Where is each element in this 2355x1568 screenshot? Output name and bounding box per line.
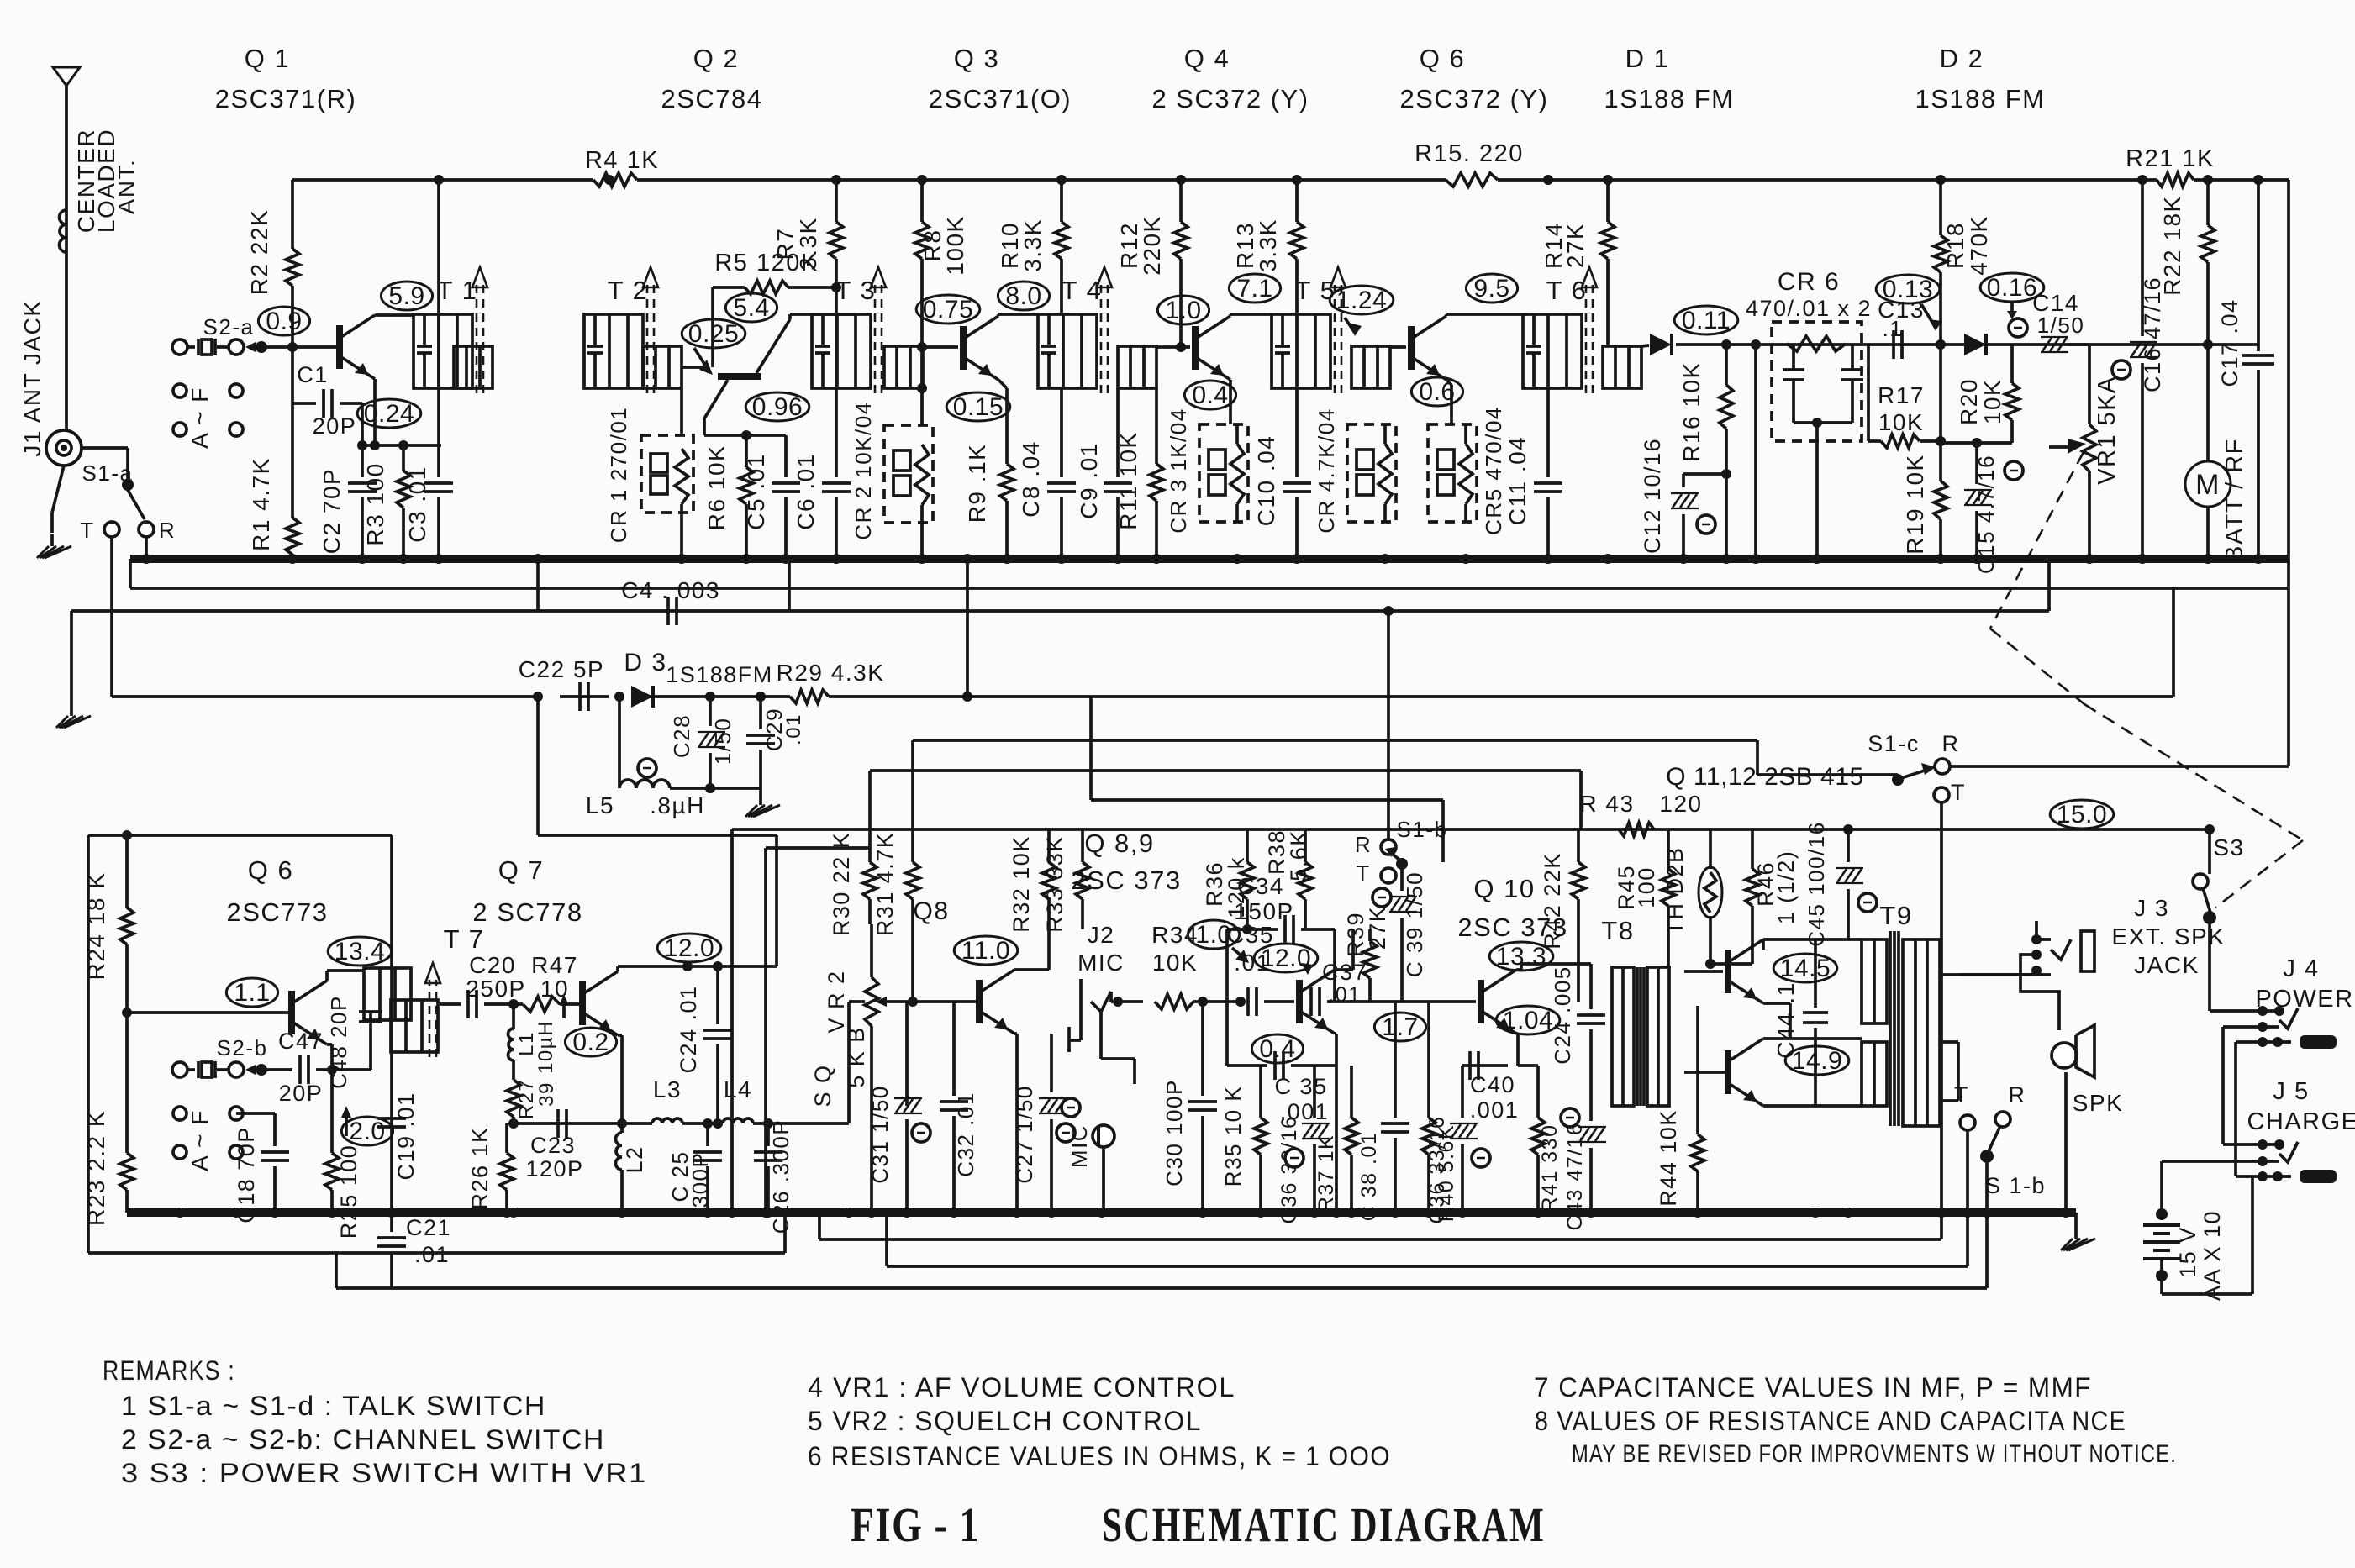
transformer T6 bbox=[1523, 267, 1641, 393]
wire Q8 emitter bbox=[1014, 1034, 1017, 1213]
capacitor C24b bbox=[1550, 964, 1605, 1106]
wire Q10 base bbox=[1370, 1000, 1476, 1003]
svg-text:V R 2: V R 2 bbox=[824, 970, 849, 1033]
switch S1-b lower bbox=[1954, 1082, 2046, 1213]
capacitor C21 bbox=[377, 1213, 451, 1288]
transistor label Q1 bbox=[215, 44, 357, 113]
wire to VR1 bbox=[2068, 345, 2089, 424]
svg-text:L2: L2 bbox=[622, 1145, 647, 1173]
svg-text:C19 .01: C19 .01 bbox=[393, 1092, 419, 1180]
svg-text:R25 100: R25 100 bbox=[336, 1144, 361, 1239]
wire mid A bbox=[913, 740, 1757, 862]
svg-text:J 4: J 4 bbox=[2283, 955, 2319, 982]
svg-text:T: T bbox=[1951, 780, 1966, 805]
meter oval 2.0 bbox=[341, 1106, 393, 1145]
svg-text:.01: .01 bbox=[782, 713, 805, 745]
svg-text:20P: 20P bbox=[279, 1081, 324, 1106]
svg-text:220K: 220K bbox=[1139, 215, 1165, 275]
svg-text:C 35: C 35 bbox=[1274, 1074, 1327, 1099]
svg-text:C40: C40 bbox=[1470, 1072, 1515, 1097]
resistor R34 bbox=[1151, 922, 1241, 1009]
wire osc feedback bbox=[962, 559, 972, 702]
bus junction bbox=[2084, 554, 2094, 564]
capacitor C12 bbox=[1640, 438, 1726, 559]
bus junction bbox=[781, 554, 791, 564]
svg-text:3.3K: 3.3K bbox=[795, 217, 821, 271]
bottom bus junction bbox=[902, 1208, 912, 1218]
transistor Q11 bbox=[1684, 939, 1763, 1003]
transistor label Q3 bbox=[929, 44, 1072, 113]
svg-text:5 VR2 : SQUELCH CONTROL: 5 VR2 : SQUELCH CONTROL bbox=[808, 1406, 1202, 1436]
label center loaded ant bbox=[73, 129, 140, 233]
wire Q6rf base bbox=[1345, 318, 1406, 347]
svg-text:2SC371(O): 2SC371(O) bbox=[929, 84, 1072, 113]
wire Q12 out bbox=[1763, 1104, 1862, 1108]
ceramic filter CR6 bbox=[1746, 268, 1872, 559]
audio supply rail bbox=[732, 829, 2210, 1213]
resistor R16 bbox=[1678, 345, 1733, 559]
capacitor C36 bbox=[1278, 1066, 1330, 1223]
wire S3 down bbox=[2208, 924, 2211, 1011]
meter oval 11.0 bbox=[954, 936, 1018, 965]
inductor L5 bbox=[586, 692, 761, 818]
wire T column bbox=[110, 537, 113, 697]
svg-text:.01: .01 bbox=[414, 1242, 450, 1267]
bus junction bbox=[1721, 554, 1731, 564]
inductor L2 bbox=[616, 1123, 647, 1213]
capacitor C27 bbox=[1012, 1034, 1075, 1213]
resistor R38 bbox=[1264, 829, 1312, 929]
meter oval 5.9 bbox=[381, 282, 432, 310]
meter oval 9.5 bbox=[1466, 274, 1517, 303]
bus junction bbox=[962, 554, 972, 564]
label BATT/RF bbox=[2221, 438, 2248, 562]
svg-text:120: 120 bbox=[1659, 791, 1702, 817]
svg-text:C48 20P: C48 20P bbox=[326, 995, 351, 1089]
svg-text:20P: 20P bbox=[313, 413, 357, 439]
wire below3 bbox=[336, 1213, 1987, 1288]
meter oval 15.0 bbox=[2050, 800, 2114, 829]
svg-text:R23 2.2 K: R23 2.2 K bbox=[83, 1110, 109, 1226]
svg-text:C23: C23 bbox=[530, 1133, 576, 1158]
remarks line3 bbox=[121, 1458, 647, 1488]
wire Q4 emitter bbox=[1229, 380, 1232, 424]
resistor R31 bbox=[872, 832, 919, 1007]
wire Q7 collector bbox=[618, 961, 777, 971]
diode D1 bbox=[1650, 334, 1672, 355]
bottom bus junction bbox=[1962, 1208, 1973, 1218]
svg-text:.8µH: .8µH bbox=[650, 792, 705, 818]
bottom bus junction bbox=[1586, 1208, 1596, 1218]
svg-text:L4: L4 bbox=[724, 1076, 752, 1102]
svg-text:SCHEMATIC DIAGRAM: SCHEMATIC DIAGRAM bbox=[1102, 1497, 1546, 1552]
svg-text:CR 4.7K/04: CR 4.7K/04 bbox=[1314, 408, 1339, 533]
rail junction bbox=[1936, 175, 1946, 185]
resistor R11 bbox=[1115, 388, 1163, 559]
meter oval 0.25 bbox=[682, 319, 745, 348]
svg-text:27K: 27K bbox=[1365, 906, 1390, 950]
wire Q10 emitter bbox=[1516, 1034, 1518, 1066]
capacitor C25 bbox=[667, 1118, 722, 1213]
bottom bus junction bbox=[761, 1208, 771, 1218]
wire D3 row bbox=[112, 588, 2173, 697]
bus junction bbox=[1113, 554, 1123, 564]
bottom bus junction bbox=[1693, 1208, 1703, 1218]
transistor label Q2 bbox=[661, 44, 762, 113]
svg-text:M: M bbox=[2195, 469, 2221, 501]
wire vr2 input bbox=[849, 1002, 865, 1123]
svg-text:D 3: D 3 bbox=[624, 649, 666, 676]
svg-text:9.5: 9.5 bbox=[1473, 275, 1509, 303]
svg-text:15.0: 15.0 bbox=[2057, 801, 2107, 829]
capacitor C1 bbox=[292, 347, 362, 445]
svg-text:R2 22K: R2 22K bbox=[246, 209, 272, 295]
svg-text:C24 .01: C24 .01 bbox=[676, 985, 701, 1073]
svg-text:C1: C1 bbox=[297, 362, 329, 387]
wire Q3 emitter bbox=[998, 380, 1007, 424]
meter oval 8.0 bbox=[998, 282, 1049, 310]
svg-text:C20: C20 bbox=[469, 952, 516, 978]
diode D3 bbox=[624, 649, 772, 708]
svg-text:S1-b: S1-b bbox=[1397, 817, 1448, 842]
meter oval 13.3 bbox=[1489, 942, 1553, 971]
transistor Q1 bbox=[340, 315, 375, 379]
bus junction bbox=[1751, 554, 1761, 564]
capacitor C23 bbox=[525, 1109, 583, 1181]
wire Q6rf collector bbox=[1446, 314, 1527, 316]
svg-text:Q 3: Q 3 bbox=[954, 44, 999, 73]
svg-text:0.15: 0.15 bbox=[953, 393, 1004, 421]
bus junction bbox=[287, 554, 298, 564]
svg-text:SPK: SPK bbox=[2073, 1090, 2124, 1116]
svg-text:C31 1/50: C31 1/50 bbox=[867, 1085, 893, 1184]
svg-text:L5: L5 bbox=[586, 792, 614, 818]
bus B- bottom bbox=[127, 1208, 2076, 1217]
resistor R40 bbox=[1422, 1002, 1458, 1222]
svg-text:MAY BE REVISED FOR IMPROVM: MAY BE REVISED FOR IMPROVMENTS W ITHOUT … bbox=[1572, 1440, 2177, 1468]
svg-text:J2: J2 bbox=[1088, 922, 1115, 948]
svg-text:5.9: 5.9 bbox=[388, 282, 424, 310]
rail junction bbox=[1603, 175, 1613, 185]
svg-text:C12 10/16: C12 10/16 bbox=[1640, 438, 1665, 554]
transistor Q6rf bbox=[1411, 316, 1446, 380]
svg-text:R47: R47 bbox=[531, 952, 578, 978]
resistor R8 bbox=[915, 180, 968, 425]
capacitor C36b bbox=[1425, 1066, 1490, 1223]
ground ant bbox=[37, 466, 71, 558]
switch S1-a bbox=[80, 448, 176, 543]
svg-text:R9 .1K: R9 .1K bbox=[964, 444, 990, 524]
rail junction bbox=[434, 175, 444, 185]
svg-text:A ~ F: A ~ F bbox=[187, 1109, 213, 1171]
node Q1 base bbox=[287, 342, 298, 352]
resistor R17 bbox=[1868, 345, 1946, 448]
transformer T5 bbox=[1272, 267, 1390, 393]
bus junction bbox=[917, 554, 927, 564]
svg-text:1S188 FM: 1S188 FM bbox=[1915, 84, 2045, 113]
svg-text:.1: .1 bbox=[1883, 316, 1904, 341]
svg-text:R31 4.7K: R31 4.7K bbox=[872, 832, 898, 937]
svg-text:C3 .01: C3 .01 bbox=[404, 466, 430, 543]
remarks line9 bbox=[1572, 1440, 2177, 1468]
svg-text:7 CAPACITANCE VALUES IN M: 7 CAPACITANCE VALUES IN MF, P = MMF bbox=[1534, 1372, 2092, 1402]
svg-text:T 4: T 4 bbox=[1062, 276, 1103, 305]
svg-text:CR 3 1K/04: CR 3 1K/04 bbox=[1166, 408, 1191, 533]
label A~F osc bbox=[173, 1107, 243, 1171]
switch S1-c bbox=[1868, 731, 1966, 805]
potentiometer VR1 bbox=[2049, 376, 2121, 559]
wire drv rail bbox=[1705, 959, 1752, 969]
svg-text:R1 4.7K: R1 4.7K bbox=[248, 457, 274, 551]
wire agc line bbox=[71, 559, 2049, 704]
wire S1c R bbox=[1950, 765, 2289, 768]
svg-text:R42 22K: R42 22K bbox=[1540, 852, 1565, 950]
svg-text:1 (1/2): 1 (1/2) bbox=[1773, 850, 1799, 925]
wire Q6rf emitter bbox=[1446, 380, 1451, 424]
meter oval 1.1 bbox=[226, 978, 277, 1007]
capacitor C39 bbox=[1372, 864, 1427, 1002]
svg-text:R29 4.3K: R29 4.3K bbox=[777, 660, 885, 686]
svg-text:120P: 120P bbox=[525, 1156, 583, 1181]
switch S2-b bbox=[172, 1035, 277, 1078]
transistor Q9 bbox=[1299, 970, 1335, 1034]
inductor L3 bbox=[622, 1076, 682, 1123]
svg-text:100K: 100K bbox=[942, 215, 968, 275]
microphone MIC bbox=[1062, 1098, 1114, 1213]
bottom bus junction bbox=[1198, 1208, 1208, 1218]
svg-text:1.24: 1.24 bbox=[1336, 287, 1387, 314]
resistor R23 bbox=[83, 1013, 134, 1226]
bottom bus junction bbox=[1346, 1208, 1357, 1218]
svg-text:120 k: 120 k bbox=[1224, 856, 1249, 918]
bottom bus junction bbox=[387, 1208, 397, 1218]
transformer T3 bbox=[812, 267, 923, 393]
resistor R29 bbox=[777, 660, 885, 703]
resistor R3 bbox=[362, 440, 410, 559]
resistor R1 bbox=[248, 403, 299, 559]
meter oval 1.04 bbox=[1496, 1006, 1560, 1034]
svg-text:S 1-b: S 1-b bbox=[1985, 1173, 2046, 1198]
bottom bus junction bbox=[1012, 1208, 1022, 1218]
svg-text:14.9: 14.9 bbox=[1792, 1047, 1842, 1075]
resistor R6 bbox=[703, 435, 753, 559]
svg-text:REMARKS :: REMARKS : bbox=[103, 1355, 235, 1386]
svg-text:470/.01 x 2: 470/.01 x 2 bbox=[1746, 296, 1872, 321]
resistor R42 bbox=[1540, 829, 1585, 1002]
svg-text:S2-b: S2-b bbox=[217, 1035, 268, 1060]
bottom bus junction bbox=[1457, 1208, 1467, 1218]
bus B- top section bbox=[130, 555, 2289, 563]
resistor R25 bbox=[325, 1070, 361, 1239]
svg-text:VR1 5KA: VR1 5KA bbox=[2094, 376, 2121, 485]
ground C29 bbox=[745, 788, 780, 817]
resistor R21 bbox=[2126, 145, 2215, 187]
svg-text:T 1: T 1 bbox=[437, 276, 478, 305]
meter oval 12.0 bbox=[657, 934, 721, 962]
resistor R24 bbox=[83, 835, 134, 1018]
bottom bus junction bbox=[617, 1208, 627, 1218]
capacitor C30 bbox=[1162, 997, 1217, 1213]
wire below2 bbox=[887, 1213, 1968, 1266]
svg-text:8 VALUES OF RESISTANCE AN: 8 VALUES OF RESISTANCE AND CAPACITA NCE bbox=[1535, 1406, 2126, 1436]
svg-text:470K: 470K bbox=[1966, 215, 1992, 275]
svg-text:S3: S3 bbox=[2213, 834, 2244, 860]
wire Q2 emitter bias bbox=[704, 430, 786, 440]
meter oval 1.24 bbox=[1330, 286, 1394, 314]
resistor R10 bbox=[997, 180, 1068, 314]
figure caption bbox=[851, 1497, 1546, 1552]
svg-text:D 2: D 2 bbox=[1940, 44, 1984, 73]
wire below1 bbox=[819, 1213, 1941, 1239]
svg-text:C10 .04: C10 .04 bbox=[1253, 435, 1279, 527]
transformer T9 bbox=[1862, 901, 1940, 1126]
svg-text:7.1: 7.1 bbox=[1236, 275, 1272, 303]
capacitor C34 bbox=[1227, 873, 1335, 1002]
capacitor C31 bbox=[867, 1002, 930, 1213]
wire det drop bbox=[1754, 345, 1757, 559]
svg-text:BATT / RF: BATT / RF bbox=[2221, 438, 2248, 562]
resistor R36 bbox=[1202, 829, 1254, 934]
svg-text:2SC784: 2SC784 bbox=[661, 84, 762, 113]
bus junction bbox=[1380, 554, 1390, 564]
svg-text:R41 330: R41 330 bbox=[1538, 1123, 1562, 1212]
capacitor C15 bbox=[1964, 438, 2023, 574]
svg-text:C 38 .01: C 38 .01 bbox=[1357, 1132, 1381, 1222]
meter oval 14.5 bbox=[1773, 954, 1837, 982]
svg-text:0.75: 0.75 bbox=[923, 296, 973, 324]
svg-text:J 3: J 3 bbox=[2134, 895, 2169, 921]
meter oval 0.75 bbox=[916, 295, 980, 324]
transistor Q6 osc bbox=[292, 981, 327, 1044]
wire Q4 base bbox=[1156, 345, 1190, 349]
svg-text:R37 1K: R37 1K bbox=[1314, 1134, 1338, 1212]
bottom bus junction bbox=[1573, 1208, 1583, 1218]
rail junction bbox=[2203, 175, 2213, 185]
svg-text:1/50: 1/50 bbox=[2037, 313, 2085, 338]
bus junction bbox=[1543, 554, 1553, 564]
svg-text:S2-a: S2-a bbox=[203, 314, 255, 339]
capacitor C22 bbox=[519, 656, 604, 711]
transformer T1 bbox=[414, 267, 493, 393]
svg-text:8.0: 8.0 bbox=[1005, 282, 1041, 310]
svg-text:0.96: 0.96 bbox=[752, 393, 803, 421]
svg-text:2SC371(R): 2SC371(R) bbox=[215, 84, 357, 113]
meter oval 1.7 bbox=[1374, 1013, 1425, 1041]
bus junction bbox=[2203, 554, 2213, 564]
ground SPK bbox=[2061, 1213, 2095, 1250]
antenna loading coil bbox=[60, 210, 67, 252]
svg-text:T 6: T 6 bbox=[1546, 276, 1588, 305]
capacitor C28 bbox=[669, 692, 735, 793]
bottom bus junction bbox=[1046, 1208, 1056, 1218]
svg-text:0.2: 0.2 bbox=[572, 1029, 609, 1056]
capacitor C48 bbox=[326, 995, 382, 1089]
meter oval 0.6 bbox=[1411, 377, 1462, 406]
inductor L4 bbox=[682, 1076, 849, 1123]
label Q7 osc bbox=[472, 855, 582, 927]
node det1 bbox=[1721, 339, 1761, 350]
svg-text:C2 70P: C2 70P bbox=[319, 468, 345, 554]
transistor label Q4 bbox=[1151, 44, 1309, 113]
svg-text:0.4: 0.4 bbox=[1192, 381, 1228, 409]
speaker SPK bbox=[2052, 1012, 2123, 1213]
svg-text:1.1: 1.1 bbox=[234, 979, 270, 1007]
resistor R33 bbox=[1042, 829, 1089, 933]
svg-text:0.16: 0.16 bbox=[1987, 274, 2037, 302]
capacitor C16 bbox=[2112, 180, 2165, 559]
svg-text:C27 1/50: C27 1/50 bbox=[1012, 1085, 1037, 1184]
resistor R46 bbox=[1746, 829, 1799, 964]
svg-text:R20: R20 bbox=[1956, 378, 1982, 425]
mech dashed link bbox=[1990, 452, 2303, 908]
bus junction bbox=[1002, 554, 1012, 564]
meter oval 0.4b bbox=[1251, 1034, 1303, 1063]
transistor Q12 bbox=[1684, 1039, 1763, 1106]
svg-text:R: R bbox=[2009, 1082, 2026, 1108]
svg-text:1.7: 1.7 bbox=[1382, 1013, 1418, 1041]
rail junction bbox=[1543, 175, 1553, 185]
bus junction bbox=[677, 554, 687, 564]
svg-text:5.4: 5.4 bbox=[733, 294, 769, 322]
wire Q6 collector bbox=[327, 971, 364, 981]
capacitor C35h bbox=[1227, 922, 1294, 1016]
bottom bus junction bbox=[1533, 1208, 1543, 1218]
svg-text:R4 1K: R4 1K bbox=[585, 147, 659, 174]
svg-text:0.24: 0.24 bbox=[364, 400, 414, 428]
bottom bus junction bbox=[1097, 1208, 1107, 1218]
remarks line2 bbox=[121, 1424, 605, 1455]
capacitor C43 bbox=[1561, 1106, 1606, 1230]
wire C22 tap bbox=[538, 697, 777, 966]
remarks line1 bbox=[121, 1391, 546, 1421]
meter oval 0.2 bbox=[565, 1028, 616, 1056]
wire Q11 out bbox=[1763, 939, 1862, 1039]
wire C23 row bbox=[508, 1118, 627, 1129]
capacitor C8 bbox=[1018, 388, 1076, 559]
svg-text:0.4: 0.4 bbox=[1259, 1035, 1295, 1063]
jack J2 MIC bbox=[1069, 922, 1143, 1084]
rail junction bbox=[1176, 175, 1186, 185]
svg-text:R32 10K: R32 10K bbox=[1009, 835, 1034, 933]
bottom bus junction bbox=[844, 1208, 854, 1218]
svg-text:T 3: T 3 bbox=[835, 276, 877, 305]
wire mid B bbox=[870, 771, 1581, 862]
wire S1c T drop bbox=[1940, 802, 1943, 1213]
switch S3 bbox=[2193, 824, 2245, 924]
capacitor C4 bbox=[538, 559, 789, 625]
wire R column bbox=[145, 537, 148, 559]
svg-text:10K: 10K bbox=[1152, 950, 1198, 976]
wire S1c feed bbox=[1757, 740, 1903, 785]
bottom bus junction bbox=[1936, 1208, 1947, 1218]
svg-text:R3 100: R3 100 bbox=[362, 462, 388, 545]
svg-text:6 RESISTANCE VALUES IN OH: 6 RESISTANCE VALUES IN OHMS, K = 1 OOO bbox=[808, 1441, 1391, 1471]
svg-text:0.9: 0.9 bbox=[266, 308, 302, 335]
capacitor C17 bbox=[2217, 180, 2274, 559]
svg-text:12.0: 12.0 bbox=[664, 934, 714, 962]
meter oval 5.4 bbox=[725, 293, 777, 322]
svg-text:10K: 10K bbox=[1979, 379, 2005, 424]
bus junction bbox=[1678, 554, 1689, 564]
svg-text:T8: T8 bbox=[1601, 916, 1634, 945]
bus junction bbox=[1936, 554, 1946, 564]
wire J4J5 links bbox=[2223, 1027, 2236, 1176]
bottom bus junction bbox=[327, 1208, 337, 1218]
rail junction bbox=[2253, 175, 2263, 185]
svg-text:C45 100/16: C45 100/16 bbox=[1804, 821, 1829, 946]
capacitor C44 bbox=[1773, 939, 1828, 1106]
svg-text:CR 2 10K/04: CR 2 10K/04 bbox=[851, 401, 876, 539]
